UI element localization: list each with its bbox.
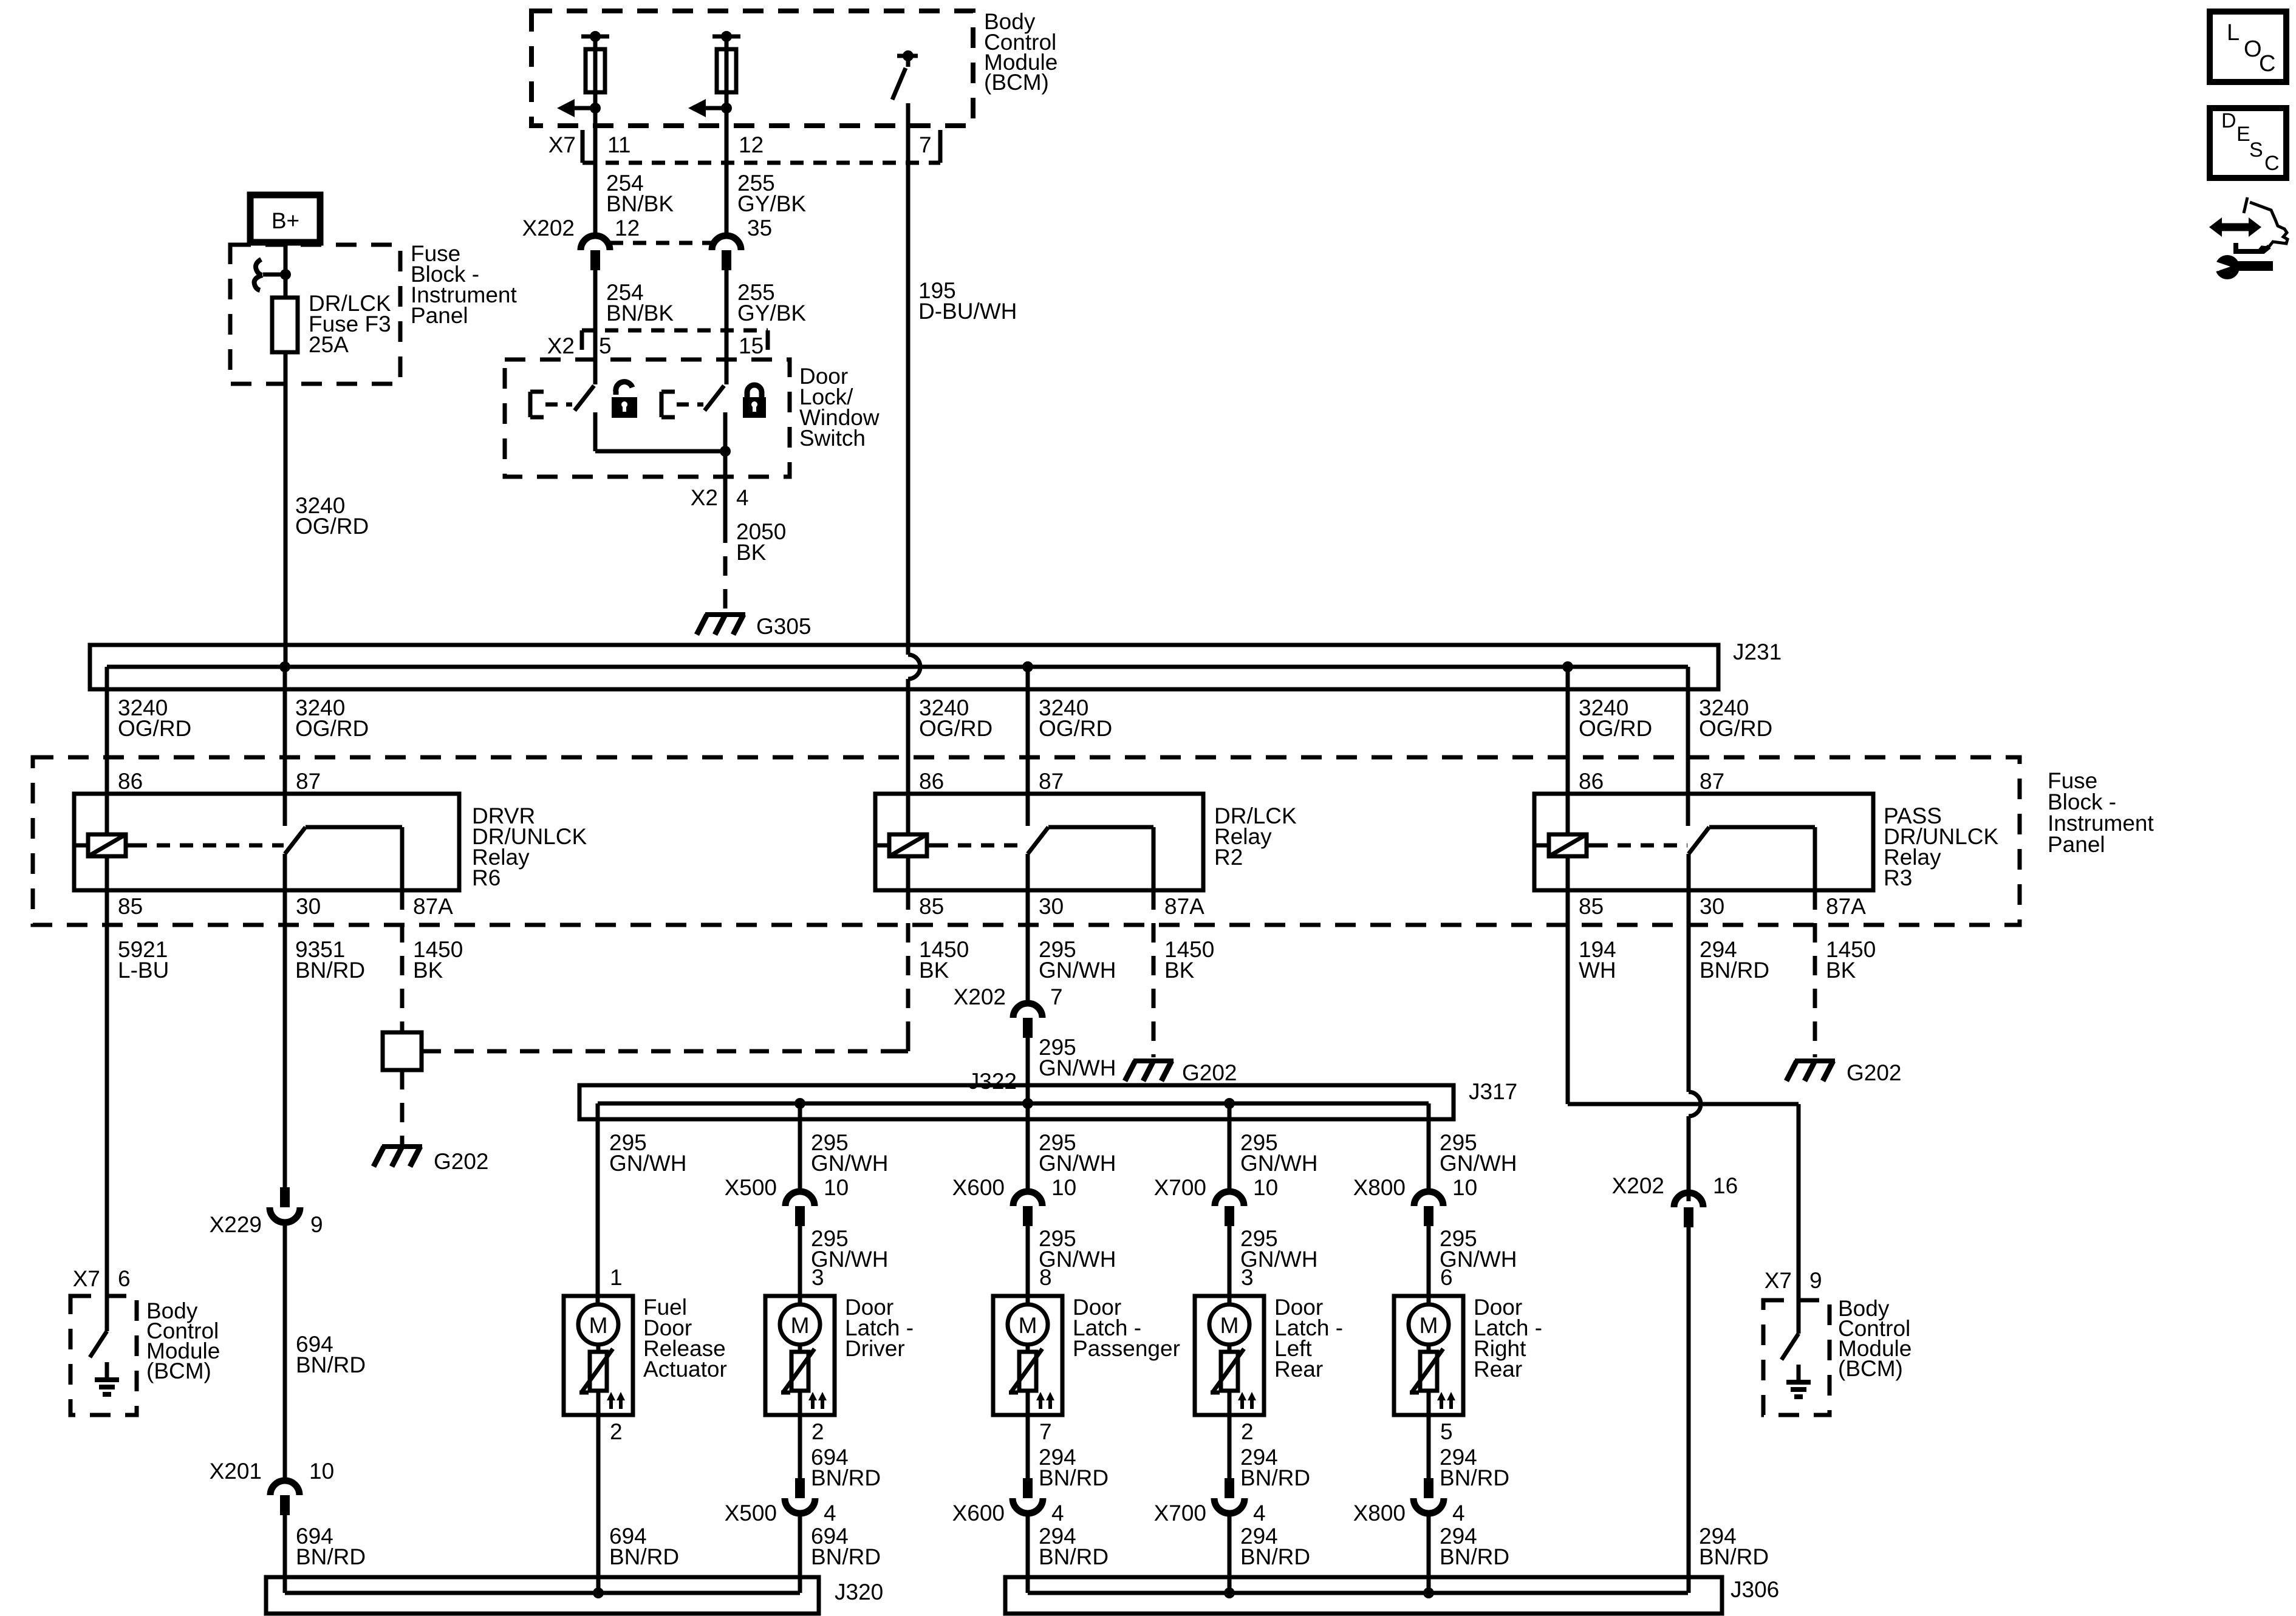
svg-text:GY/BK: GY/BK bbox=[737, 301, 806, 326]
wire label 694 BN/RD (motor1) bbox=[609, 1524, 679, 1569]
pin 4 (X500) bbox=[824, 1501, 836, 1526]
thermistor (PTC) bbox=[781, 1349, 815, 1393]
svg-text:85: 85 bbox=[118, 894, 143, 919]
wire motor internal bbox=[1427, 1345, 1431, 1415]
module box: Body Control Module (BCM) bottom-right bbox=[1763, 1300, 1830, 1415]
svg-text:87A: 87A bbox=[1826, 894, 1866, 919]
wire resistor2 to junction bbox=[725, 36, 729, 108]
svg-text:BN/RD: BN/RD bbox=[296, 1544, 366, 1569]
motor top pin 6 bbox=[1440, 1265, 1453, 1290]
relay relay R6 DRVR DR/UNLCK box bbox=[74, 794, 459, 890]
label Door Latch - Driver bbox=[845, 1295, 914, 1361]
wire X201 to J320 bbox=[283, 1515, 287, 1593]
svg-text:R6: R6 bbox=[472, 865, 501, 890]
svg-text:4: 4 bbox=[1452, 1501, 1465, 1526]
thermistor (PTC) bbox=[1211, 1349, 1244, 1393]
wire motor to X500-4 bbox=[798, 1415, 802, 1478]
wire splice dashed to G202 bbox=[400, 1070, 405, 1144]
wire label 295 GN/WH (below X600) bbox=[1039, 1226, 1116, 1272]
wire label 294 BN/RD (below X700-4) bbox=[1240, 1524, 1310, 1569]
relay relay R3 PASS DR/UNLCK contact blade bbox=[1689, 827, 1709, 854]
motor bottom pin 2 bbox=[811, 1419, 824, 1444]
svg-text:M: M bbox=[589, 1313, 608, 1338]
label Fuse Block - Instrument Panel (top) bbox=[411, 241, 518, 328]
wire label 295 GN/WH (below J317) bbox=[1440, 1130, 1517, 1176]
svg-text:J306: J306 bbox=[1731, 1577, 1779, 1602]
wire X202-12 to switch bbox=[593, 270, 598, 384]
svg-text:G202: G202 bbox=[434, 1149, 489, 1174]
svg-text:Rear: Rear bbox=[1274, 1357, 1323, 1382]
node junction resistor2 bbox=[721, 103, 732, 114]
svg-text:M: M bbox=[1420, 1313, 1438, 1338]
wire label 255 GY/BK (upper) bbox=[737, 171, 806, 216]
thermistor (PTC) bbox=[579, 1349, 613, 1393]
ground inside BCM left bbox=[95, 1362, 119, 1394]
thermistor (PTC) bbox=[1410, 1349, 1443, 1393]
arrows (actuator motion) bbox=[1036, 1392, 1054, 1409]
pin 7 (X202) bbox=[1050, 984, 1063, 1009]
svg-text:7: 7 bbox=[1039, 1419, 1052, 1444]
wire label 294 BN/RD (above J306) bbox=[1699, 1524, 1769, 1569]
svg-text:Panel: Panel bbox=[2048, 832, 2105, 857]
bus J306 conductor bbox=[1028, 1591, 1688, 1595]
wire label 1450 BK (R6-87A) bbox=[413, 937, 463, 983]
relay relay R3 PASS DR/UNLCK contact to 87A bbox=[1709, 827, 1815, 890]
actuator motor box (Door) bbox=[765, 1296, 835, 1415]
motor top pin 3 bbox=[1241, 1265, 1254, 1290]
svg-text:WH: WH bbox=[1579, 958, 1616, 983]
wire label 294 BN/RD (below X800-4) bbox=[1440, 1524, 1509, 1569]
arrows (actuator motion) bbox=[607, 1392, 625, 1409]
wire label 295 GN/WH (below J317) bbox=[609, 1130, 686, 1176]
svg-text:16: 16 bbox=[1713, 1173, 1738, 1198]
svg-text:2: 2 bbox=[610, 1419, 623, 1444]
svg-text:30: 30 bbox=[296, 894, 321, 919]
bus J231 conductor bbox=[107, 665, 1688, 669]
wire X202-7 to J317 bbox=[1026, 1038, 1030, 1103]
pin 30 label (relay R2 DR/LCK) bbox=[1039, 894, 1064, 919]
label Body Control Module (BCM) right bbox=[1838, 1296, 1912, 1381]
label relay R2 DR/LCK bbox=[1214, 803, 1297, 870]
pin 12 (X202) bbox=[615, 216, 640, 240]
fuse block dashed box (instrument panel, relays) bbox=[33, 757, 2020, 925]
label Body Control Module (BCM) top-right bbox=[984, 9, 1057, 95]
wire label 294 BN/RD (below X600-4) bbox=[1039, 1524, 1109, 1569]
splice pack J317 outline bbox=[579, 1085, 1454, 1119]
node junction resistor1 bbox=[590, 103, 601, 114]
svg-text:87: 87 bbox=[1039, 769, 1064, 794]
svg-text:BN/RD: BN/RD bbox=[1699, 1544, 1769, 1569]
resistor R-unlock driver (BCM pin 12) bbox=[717, 49, 736, 92]
label X500 (bottom) bbox=[725, 1501, 777, 1526]
wire label 3240 OG/RD (R1-86) bbox=[118, 695, 191, 741]
label J320 bbox=[835, 1580, 883, 1604]
wire R3-87A dashed to G202 bbox=[1813, 890, 1817, 1057]
motor top pin 3 bbox=[811, 1265, 824, 1290]
icon DESC box bbox=[2210, 108, 2286, 178]
label Door Latch - Passenger bbox=[1073, 1295, 1180, 1361]
wire label 3240 OG/RD (R3-87) bbox=[1699, 695, 1772, 741]
label G202 (center) bbox=[1182, 1060, 1237, 1085]
wire label 694 BN/RD (above X500-4) bbox=[811, 1445, 881, 1490]
svg-text:10: 10 bbox=[1452, 1175, 1477, 1200]
pin 10 (X800) bbox=[1452, 1175, 1477, 1200]
module box: Body Control Module (BCM) top bbox=[531, 11, 973, 126]
bus J317 conductor bbox=[598, 1102, 1429, 1106]
svg-text:J317: J317 bbox=[1469, 1079, 1517, 1104]
svg-text:X202: X202 bbox=[954, 984, 1006, 1009]
wire X500-4 down bbox=[798, 1513, 802, 1593]
wire label 294 BN/RD (above X700-4) bbox=[1240, 1445, 1310, 1490]
svg-text:6: 6 bbox=[1440, 1265, 1453, 1290]
label G305 bbox=[756, 614, 811, 639]
svg-text:X600: X600 bbox=[952, 1175, 1005, 1200]
icon LOC box bbox=[2210, 12, 2286, 82]
relay relay R3 PASS DR/UNLCK box bbox=[1534, 794, 1873, 890]
wire motor to X800-4 bbox=[1427, 1415, 1431, 1478]
connector X7 (BCM top) bbox=[583, 130, 940, 163]
svg-text:Rear: Rear bbox=[1474, 1357, 1522, 1382]
icon locked padlock bbox=[743, 385, 766, 418]
wire switch2 lower contact bbox=[723, 412, 728, 451]
svg-text:GN/WH: GN/WH bbox=[811, 1151, 888, 1176]
svg-text:4: 4 bbox=[1051, 1501, 1064, 1526]
svg-text:X2: X2 bbox=[547, 333, 575, 358]
arrows (actuator motion) bbox=[808, 1392, 827, 1409]
label J231 bbox=[1733, 639, 1782, 664]
motor bottom pin 2 bbox=[1241, 1419, 1254, 1444]
pin 4 (X2) bbox=[736, 485, 749, 510]
wire coil pins (relay R3 PASS DR/UNLCK) bbox=[1566, 794, 1570, 890]
svg-text:30: 30 bbox=[1700, 894, 1724, 919]
wire BCM pin 12 down to X202 pin 35 bbox=[725, 108, 729, 236]
wire X500-10 to motor bbox=[798, 1226, 802, 1304]
wire coil pins (relay R6 DRVR DR/UNLCK) bbox=[105, 794, 109, 890]
wire label 694 BN/RD (below X201) bbox=[296, 1524, 366, 1569]
switch blade 1 (lock) bbox=[575, 386, 594, 411]
svg-text:BN/RD: BN/RD bbox=[296, 1352, 366, 1377]
motor M circle bbox=[780, 1304, 820, 1345]
pin 10 (X201) bbox=[309, 1459, 334, 1484]
node J317 at X202-7 wire bbox=[1022, 1098, 1033, 1109]
pin 87 label (relay R3 PASS DR/UNLCK) bbox=[1700, 769, 1724, 794]
wire label 254 BN/BK (lower) bbox=[606, 280, 674, 326]
svg-text:4: 4 bbox=[824, 1501, 836, 1526]
wire label 3240 OG/RD (R2-87) bbox=[1039, 695, 1112, 741]
label X700 bbox=[1154, 1175, 1206, 1200]
svg-text:GN/WH: GN/WH bbox=[1039, 958, 1116, 983]
wire label 3240 OG/RD (above J231) bbox=[295, 493, 369, 539]
svg-text:X201: X201 bbox=[210, 1459, 262, 1484]
wire J317 to X600-10 bbox=[1026, 1103, 1030, 1192]
wire motor to X700-4 bbox=[1228, 1415, 1232, 1478]
svg-text:BN/RD: BN/RD bbox=[1240, 1544, 1310, 1569]
svg-text:10: 10 bbox=[1253, 1175, 1278, 1200]
wire pin30 (relay R3 PASS DR/UNLCK) bbox=[1687, 854, 1691, 890]
svg-text:BK: BK bbox=[1826, 958, 1856, 983]
label X500 bbox=[725, 1175, 777, 1200]
pin 11 bbox=[607, 132, 630, 157]
pin 4 (X700) bbox=[1253, 1501, 1266, 1526]
svg-text:Switch: Switch bbox=[799, 426, 866, 451]
wire label 1450 BK (R2-87A) bbox=[1164, 937, 1214, 983]
wire pin30 (relay R6 DRVR DR/UNLCK) bbox=[283, 854, 287, 890]
svg-text:4: 4 bbox=[1253, 1501, 1266, 1526]
svg-text:87: 87 bbox=[1700, 769, 1724, 794]
wire switch common bbox=[595, 446, 731, 457]
resistor R-lock driver (BCM pin 11) bbox=[586, 49, 605, 92]
wire motor internal bbox=[798, 1345, 802, 1415]
fuse F3 (DR/LCK 25A) bbox=[272, 298, 298, 352]
wire BCM pin 11 down to X202 pin 12 bbox=[593, 108, 598, 236]
wire R6-30 down to X229 bbox=[283, 890, 287, 1188]
arrow (BCM driver output, lock) bbox=[557, 99, 595, 117]
icon wrench bbox=[2205, 255, 2273, 279]
actuator motor box (Door) bbox=[1195, 1296, 1264, 1415]
svg-text:X2: X2 bbox=[691, 485, 718, 510]
icon unlocked padlock bbox=[612, 382, 637, 418]
icon door with double arrow bbox=[2209, 197, 2287, 251]
motor M circle bbox=[578, 1304, 618, 1345]
pin 7 bbox=[919, 132, 932, 157]
wire hop: 294 wire over 194 wire bbox=[1689, 890, 1701, 1201]
svg-text:C: C bbox=[2259, 51, 2275, 77]
label Fuse Block - Instrument Panel (right) bbox=[2048, 768, 2154, 857]
pin 87 label (relay R6 DRVR DR/UNLCK) bbox=[296, 769, 321, 794]
svg-text:Driver: Driver bbox=[845, 1336, 905, 1361]
relay relay R6 DRVR DR/UNLCK coil bbox=[74, 834, 134, 856]
wire label 294 BN/RD (above X800-4) bbox=[1440, 1445, 1509, 1490]
pin 86 label (relay R6 DRVR DR/UNLCK) bbox=[118, 769, 143, 794]
pin 10 (X700) bbox=[1253, 1175, 1278, 1200]
svg-text:6: 6 bbox=[118, 1266, 131, 1291]
svg-text:L-BU: L-BU bbox=[118, 958, 169, 983]
svg-text:OG/RD: OG/RD bbox=[1039, 716, 1112, 741]
switch blade 2 (unlock) bbox=[705, 386, 724, 411]
wire pin30 (relay R2 DR/LCK) bbox=[1026, 854, 1030, 890]
wire R2-30 to X202-7 bbox=[1026, 890, 1030, 1003]
wire motor1 to J320 bbox=[596, 1415, 601, 1593]
wire label 694 BN/RD (X229-X201) bbox=[296, 1332, 366, 1377]
splice pack J320 outline bbox=[266, 1577, 819, 1614]
wire hop: BCM pin7 wire over J231 bbox=[908, 655, 920, 794]
svg-text:OG/RD: OG/RD bbox=[295, 716, 369, 741]
connector X800 pin 10 bbox=[1414, 1192, 1443, 1226]
pin 87A label (relay R6 DRVR DR/UNLCK) bbox=[413, 894, 453, 919]
svg-text:5: 5 bbox=[1440, 1419, 1453, 1444]
connector X700 pin 10 bbox=[1215, 1192, 1244, 1226]
svg-text:OG/RD: OG/RD bbox=[1579, 716, 1652, 741]
connector X2 (switch top) bbox=[582, 330, 768, 350]
wire R2-85 dashed down bbox=[898, 890, 908, 1051]
svg-text:X7: X7 bbox=[73, 1266, 100, 1291]
svg-text:BN/BK: BN/BK bbox=[606, 301, 674, 326]
fuse block dashed box (top left) bbox=[230, 245, 400, 384]
svg-text:86: 86 bbox=[919, 769, 944, 794]
label DR/LCK Fuse F3 25A bbox=[309, 291, 391, 357]
node J231 to R2-87 bbox=[1022, 661, 1033, 826]
wire label 295 GN/WH (below X700) bbox=[1240, 1226, 1317, 1272]
svg-text:GN/WH: GN/WH bbox=[1039, 1151, 1116, 1176]
svg-text:X7: X7 bbox=[548, 132, 576, 157]
svg-text:25A: 25A bbox=[309, 332, 349, 357]
wire label 294 BN/RD (R3-30) bbox=[1700, 937, 1769, 983]
pin 86 label (relay R3 PASS DR/UNLCK) bbox=[1579, 769, 1604, 794]
wire X600-4 down bbox=[1026, 1513, 1030, 1593]
svg-text:(BCM): (BCM) bbox=[1838, 1356, 1903, 1381]
connector X700 pin 4 bbox=[1214, 1478, 1245, 1513]
motor M circle bbox=[1209, 1304, 1249, 1345]
label Fuel Door Release Actuator bbox=[643, 1295, 727, 1382]
label G202 (right) bbox=[1847, 1060, 1902, 1085]
svg-text:4: 4 bbox=[736, 485, 749, 510]
label relay R3 PASS DR/UNLCK bbox=[1884, 803, 1998, 890]
wire 194 WH down to BCM X7-9 bbox=[1797, 1104, 1801, 1300]
arrows (actuator motion) bbox=[1437, 1392, 1455, 1409]
relay relay R2 DR/LCK contact dashed link bbox=[935, 844, 1027, 848]
motor bottom pin 7 bbox=[1039, 1419, 1052, 1444]
ground G202 (right) bbox=[1786, 1061, 1835, 1081]
wire R6-85 to BCM X7-6 bbox=[105, 890, 109, 1296]
pin 85 label (relay R2 DR/LCK) bbox=[919, 894, 944, 919]
motor M circle bbox=[1008, 1304, 1048, 1345]
bracket contact 2 bbox=[661, 392, 703, 417]
node J317 to X500 bbox=[794, 1098, 805, 1109]
svg-text:BN/RD: BN/RD bbox=[295, 958, 365, 983]
svg-text:OG/RD: OG/RD bbox=[1699, 716, 1772, 741]
label X202 bbox=[522, 216, 575, 240]
wire label 5921 L-BU bbox=[118, 937, 169, 983]
node J306 X700 bbox=[1224, 1587, 1235, 1598]
motor bottom pin 2 bbox=[610, 1419, 623, 1444]
wire X700-10 to motor bbox=[1228, 1226, 1232, 1304]
svg-text:15: 15 bbox=[739, 333, 764, 358]
connector X600 pin 4 bbox=[1013, 1478, 1043, 1513]
wire R6-87A dashed to splice bbox=[400, 890, 405, 1032]
wire motor internal bbox=[596, 1345, 601, 1415]
label Body Control Module (BCM) left bbox=[146, 1298, 220, 1383]
pin 16 (X202) bbox=[1713, 1173, 1738, 1198]
svg-text:7: 7 bbox=[1050, 984, 1063, 1009]
wire label 254 BN/BK (upper) bbox=[606, 171, 674, 216]
motor bottom pin 5 bbox=[1440, 1419, 1453, 1444]
svg-text:J320: J320 bbox=[835, 1580, 883, 1604]
label X202 (pin16) bbox=[1612, 1173, 1664, 1198]
svg-text:GN/WH: GN/WH bbox=[609, 1151, 686, 1176]
svg-text:BK: BK bbox=[1164, 958, 1195, 983]
pin 5 bbox=[599, 333, 612, 358]
svg-text:OG/RD: OG/RD bbox=[295, 514, 369, 539]
wire label 295 GN/WH (below X202-7) bbox=[1039, 1035, 1116, 1080]
wire J317 to X800-10 bbox=[1427, 1103, 1431, 1192]
label J322 bbox=[968, 1069, 1017, 1094]
label Door Latch - Right Rear bbox=[1474, 1295, 1542, 1382]
svg-text:X202: X202 bbox=[522, 216, 575, 240]
svg-text:BN/RD: BN/RD bbox=[609, 1544, 679, 1569]
pin 87A label (relay R2 DR/LCK) bbox=[1164, 894, 1204, 919]
arrows (actuator motion) bbox=[1238, 1392, 1256, 1409]
wire X202-16 to J306 bbox=[1687, 1227, 1691, 1593]
wire resistor1 to junction bbox=[593, 36, 598, 108]
label Door Lock/Window Switch bbox=[799, 364, 880, 451]
connector X500 pin 10 bbox=[785, 1192, 815, 1226]
node J231 at fuse feed bbox=[279, 661, 290, 672]
wire motor internal bbox=[1228, 1345, 1232, 1415]
svg-text:G202: G202 bbox=[1182, 1060, 1237, 1085]
wire label 295 GN/WH (below J317) bbox=[811, 1130, 888, 1176]
svg-text:D: D bbox=[2221, 109, 2236, 132]
svg-text:S: S bbox=[2249, 138, 2263, 162]
pin 9 (X229) bbox=[310, 1212, 323, 1237]
connector X202 pin 16 bbox=[1674, 1193, 1703, 1227]
wire J317 to X700-10 bbox=[1228, 1103, 1232, 1192]
wire switch common down to X2-4 bbox=[723, 451, 728, 523]
svg-text:X229: X229 bbox=[210, 1212, 262, 1237]
arrow (BCM driver output, unlock) bbox=[688, 99, 726, 117]
label J317 bbox=[1469, 1079, 1517, 1104]
ground G305 bbox=[697, 615, 745, 635]
svg-text:10: 10 bbox=[309, 1459, 334, 1484]
actuator motor box (Fuel) bbox=[564, 1296, 633, 1415]
wire J317 to motor1 bbox=[596, 1103, 600, 1304]
label X2 (bottom) bbox=[691, 485, 718, 510]
relay relay R6 DRVR DR/UNLCK contact dashed link bbox=[134, 844, 284, 848]
pin 85 label (relay R6 DRVR DR/UNLCK) bbox=[118, 894, 143, 919]
svg-text:12: 12 bbox=[615, 216, 640, 240]
connector X800 pin 4 bbox=[1413, 1478, 1444, 1513]
pin 4 (X600) bbox=[1051, 1501, 1064, 1526]
svg-text:J322: J322 bbox=[968, 1069, 1017, 1094]
pin 15 bbox=[739, 333, 764, 358]
label X700 (bottom) bbox=[1154, 1501, 1206, 1526]
wire X700-4 down bbox=[1228, 1513, 1232, 1593]
node: BCM internal node above resistor 1 bbox=[581, 31, 609, 42]
motor top pin 8 bbox=[1039, 1265, 1052, 1290]
pin 12 bbox=[739, 132, 764, 157]
motor M circle bbox=[1409, 1304, 1449, 1345]
svg-text:X500: X500 bbox=[725, 1175, 777, 1200]
label X600 bbox=[952, 1175, 1005, 1200]
node J317 to X700 bbox=[1224, 1098, 1235, 1109]
svg-text:M: M bbox=[791, 1313, 810, 1338]
svg-text:J231: J231 bbox=[1733, 639, 1782, 664]
svg-text:87A: 87A bbox=[1164, 894, 1204, 919]
pin 9 (X7) bbox=[1809, 1268, 1822, 1293]
node: BCM internal node above resistor 2 bbox=[712, 31, 740, 42]
wire splice dashed right bbox=[422, 1049, 908, 1054]
bus J320 conductor bbox=[285, 1591, 800, 1595]
pin 4 (X800) bbox=[1452, 1501, 1465, 1526]
ground G202 (left) bbox=[374, 1147, 422, 1167]
svg-text:BK: BK bbox=[413, 958, 443, 983]
wire label 295 GN/WH (below X500) bbox=[811, 1226, 888, 1272]
connector X202 pin 7 bbox=[1013, 1003, 1042, 1038]
pin 30 label (relay R3 PASS DR/UNLCK) bbox=[1700, 894, 1724, 919]
battery feed B+ bbox=[250, 195, 320, 242]
label X202 (pin7) bbox=[954, 984, 1006, 1009]
label X201 bbox=[210, 1459, 262, 1484]
svg-text:87: 87 bbox=[296, 769, 321, 794]
svg-text:X600: X600 bbox=[952, 1501, 1005, 1526]
clip symbol at fuse feed bbox=[255, 259, 291, 290]
connector X500 pin 4 bbox=[785, 1478, 815, 1513]
wire J231 to R3-87 bbox=[1686, 667, 1690, 826]
svg-text:M: M bbox=[1019, 1313, 1037, 1338]
svg-text:BK: BK bbox=[919, 958, 949, 983]
relay relay R2 DR/LCK coil bbox=[875, 834, 935, 856]
svg-text:BN/RD: BN/RD bbox=[1440, 1544, 1509, 1569]
svg-text:BN/RD: BN/RD bbox=[1700, 958, 1769, 983]
